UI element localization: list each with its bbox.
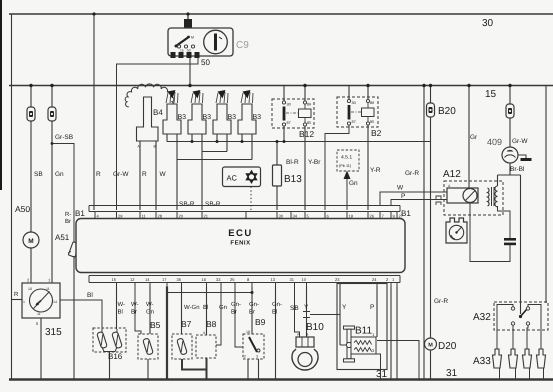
svg-text:R: R [14,291,19,298]
svg-text:Bl: Bl [203,304,208,311]
svg-text:M: M [428,343,433,349]
ground wire ECU pin 17 to bus 31 [166,287,168,380]
svg-text:M: M [28,238,33,245]
svg-text:Y-R: Y-R [370,167,381,174]
relay B2 [337,97,378,127]
wire A51 to bus 31 [73,256,75,380]
wire Y branch to B11 [310,314,340,316]
svg-text:Br: Br [131,309,137,316]
svg-text:15: 15 [112,277,117,282]
ground for 409 [518,155,526,158]
svg-text:30: 30 [352,101,356,105]
svg-text:P: P [370,304,374,311]
throttle potentiometer housing [337,284,387,370]
svg-text:86: 86 [370,101,374,105]
svg-text:A33: A33 [473,356,491,367]
wire injector2+3 group to ECU pin 21 [201,134,203,210]
svg-text:31: 31 [376,369,388,380]
wire left feeder from bus 30 to bus 31 [11,14,13,380]
B16 output join to bus 31 [102,347,117,352]
wire ECU pin 1 to bus 31 [396,287,398,380]
B8 ground to bus 31 [206,358,208,380]
svg-text:315: 315 [45,327,62,338]
svg-text:20: 20 [179,214,184,219]
HT junction wires [498,174,521,176]
wire B4 pin A (R) to ECU pin 11 [139,141,141,210]
wire C9 terminal 15 to bus 15 [189,58,191,86]
svg-text:C9: C9 [236,40,249,51]
fuse on HT suppressor wire [509,86,511,105]
wire B20 to rail and D20 [430,117,432,338]
spark plug A33 cyl3 [523,349,532,380]
snowflake icon [245,170,257,184]
svg-text:W: W [397,185,404,192]
B16 sensor 2 [112,331,123,348]
wire ECU pin 8 (Gn-Br) to B9 pin 18 [251,287,253,335]
svg-text:Gr-R: Gr-R [405,170,419,177]
wire W from ECU pin 9 to A12 [380,192,447,206]
spark plug A33 cyl1 [493,349,502,380]
fuse on Gn wire [51,86,53,108]
B16 sensor 1 [97,331,108,348]
svg-text:87: 87 [352,120,356,124]
distributor cap A32 [494,302,548,330]
wire injector 4 right pin [251,134,253,160]
wire rail to B13 [276,142,278,211]
toothed wheel arc [125,84,174,107]
svg-text:12: 12 [130,277,135,282]
wire B11 pin 1 down to bus 31 [377,341,419,380]
svg-text:Bl-R: Bl-R [286,159,299,166]
svg-text:31: 31 [446,368,458,379]
wire P from ECU pin 27 to A12 [391,200,447,207]
temperature sensor B7 [172,334,192,359]
wire injector1+4 group to ECU pin 20 [176,134,178,210]
svg-text:B7: B7 [181,319,192,329]
suppressor 409 [502,147,518,163]
svg-text:26: 26 [370,214,375,219]
wire fuse to suppressor 409 [509,118,511,147]
scan border left [0,0,2,190]
svg-text:B3: B3 [203,114,212,121]
svg-text:B3: B3 [228,114,237,121]
svg-text:Gr-R: Gr-R [434,298,448,305]
arrow wire Gn to ECU pin 19 [346,177,348,210]
svg-text:B4: B4 [153,108,163,117]
svg-text:SB-R: SB-R [179,201,195,208]
injector supply rail wire [167,141,431,143]
wire B12 switch out to injector rail [283,126,285,142]
wire R battery feed bus30 to ECU pin 4 [93,14,95,210]
svg-text:30: 30 [482,18,494,29]
ECU top pin ticks and numbers [95,212,404,219]
svg-text:24: 24 [372,277,377,282]
svg-text:4.5.1: 4.5.1 [341,155,352,161]
reference box 4.5.1 [337,150,359,171]
svg-text:21: 21 [204,214,209,219]
svg-text:23: 23 [335,277,340,282]
wire bus15 to B12 coil [304,86,306,102]
wire cap to plug 3 [527,325,528,349]
svg-text:Y: Y [342,304,347,311]
svg-text:W-Gn: W-Gn [184,304,200,311]
AC request box [223,167,261,187]
wire A50 to instrument 315 pin 2 [30,248,32,283]
svg-text:25: 25 [230,277,235,282]
fuse on SB wire [30,86,32,108]
svg-text:SB: SB [290,305,299,312]
svg-text:85: 85 [370,120,374,124]
svg-text:Y: Y [304,304,309,311]
svg-text:B3: B3 [178,114,187,121]
svg-text:B9: B9 [255,317,266,327]
wire bus15 to B2 coil [367,86,369,100]
distributor body [446,218,467,243]
B7 sensor element [177,338,188,355]
wire ECU pin 14 (W-Gn) to B5 [149,287,151,335]
svg-text:B11: B11 [355,326,372,337]
svg-text:(Pb 11): (Pb 11) [339,164,352,168]
svg-text:R: R [96,171,101,178]
wire from left feeder to 315 left pin [12,299,23,301]
svg-text:R-: R- [65,211,71,218]
svg-text:2: 2 [244,355,246,359]
injector left pin wires [166,134,168,142]
svg-text:28: 28 [158,214,163,219]
wire ECU pin 33 (Gn) to B8 side [216,287,221,346]
wire ECU pin 10 (Y) to B10 [306,287,308,312]
instrument 315 (rev counter) [22,283,60,318]
svg-text:B12: B12 [299,129,314,139]
svg-text:Gr-W: Gr-W [512,138,528,145]
ECU connector strip B1 top [89,206,400,212]
svg-text:Gr-SB: Gr-SB [55,134,73,141]
switch B9 [243,330,264,359]
svg-text:27: 27 [399,214,404,219]
ignition switch C9 [168,28,233,58]
svg-text:Br: Br [231,309,237,316]
wire capacitor to coil secondary [498,206,511,238]
wire injector 3 right pin [226,134,228,152]
wire Y inside housing to wiper [339,284,341,346]
svg-text:R: R [142,171,147,178]
wire bus15 to B12 switch [283,86,285,102]
wire ECU pin 16 (Bl) to B8 [206,287,208,336]
throttle position sensor B11 [340,326,376,362]
svg-text:Br: Br [249,309,255,316]
wire C9 terminal 50 to ECU pin 29 (Gr-W) [117,58,199,210]
svg-text:Gn: Gn [349,180,358,187]
motor A50 [23,232,39,248]
svg-text:30: 30 [287,103,291,107]
wire ECU pin 2 to bus 31 [390,287,392,380]
fuse B20 [430,86,432,104]
injector B3 cyl3 [213,90,231,134]
svg-text:Br: Br [65,218,71,225]
svg-text:A51: A51 [55,233,70,242]
svg-text:18: 18 [246,330,250,334]
wire cap to plug 1 [497,305,513,350]
svg-text:15: 15 [180,49,184,53]
ignition coil assembly A12 [444,181,503,215]
wire SB from fuse to A50 motor [30,121,32,232]
svg-text:FENIX: FENIX [230,240,250,247]
svg-text:A12: A12 [443,169,461,180]
temperature sensor B5 [138,334,158,359]
svg-text:Gr: Gr [470,134,478,141]
wire cap to plug 2 [512,325,514,349]
svg-text:SB-R: SB-R [205,201,221,208]
crank position sensor B4 [137,97,159,141]
svg-text:15: 15 [485,89,497,100]
wire 409 to HT junction [509,163,511,175]
svg-text:AC: AC [227,174,238,183]
svg-text:Gn: Gn [146,309,154,316]
wire Gr bus15 to A12 module [468,86,470,189]
svg-text:B8: B8 [206,319,217,329]
B16 sensor pin stubs [101,329,103,333]
svg-text:13: 13 [271,277,276,282]
svg-text:B3: B3 [253,114,262,121]
wire branch Gr-SB [52,144,74,244]
svg-text:409: 409 [487,137,502,147]
HT wire to distributor A32 [520,175,522,314]
bus 31 (ground) [9,378,553,381]
svg-text:16: 16 [202,277,207,282]
wire Gr-R bus15 to bus31 [423,86,425,380]
svg-text:SB: SB [34,171,43,178]
wire B4 pin B (W) to ECU pin 28 [155,141,157,210]
wire B11 pin 3 to bus 31 [376,354,381,380]
injector B3 cyl2 [188,90,206,134]
B7 ground to bus 31 [182,359,207,370]
svg-text:W: W [160,171,167,178]
wire ECU pin 15 (W-Bl) to B16 [116,287,118,330]
svg-text:Y-Br: Y-Br [308,159,321,166]
svg-text:W-: W- [146,301,154,308]
svg-text:14: 14 [53,300,57,304]
injector B3 cyl4 [238,90,256,134]
dotted wire AC to ECU [250,187,252,211]
svg-text:Bl: Bl [87,292,93,299]
svg-text:W-: W- [131,301,139,308]
wire ECU pin 12 (W-Br) to B5 [135,287,141,335]
svg-text:B16: B16 [108,352,123,361]
svg-text:Br-Bl: Br-Bl [510,166,525,173]
ECU main unit FENIX [76,219,405,273]
wire bus15 to B2 switch [348,86,350,100]
fuse A51 (diagonal) [68,242,79,258]
svg-text:W-: W- [118,301,126,308]
B9 pins to bus 31 [247,359,249,380]
wire B2 coil to ECU pin 26 (Y-R) [367,125,369,210]
svg-text:B10: B10 [306,322,324,333]
svg-text:1: 1 [23,300,25,304]
svg-text:19: 19 [349,214,354,219]
svg-text:P: P [401,193,405,200]
svg-text:3: 3 [256,355,258,359]
wire cap to plug 4 [528,305,541,350]
injector B3 cyl1 [163,90,181,134]
svg-text:50: 50 [187,49,191,53]
svg-text:31: 31 [290,277,295,282]
spark plug A33 cyl4 [537,349,546,380]
connector on Y wire [303,312,310,318]
svg-text:30: 30 [279,214,284,219]
bus 30 [9,13,553,15]
svg-text:34: 34 [293,214,298,219]
relay B12 [272,99,314,128]
svg-text:Bl: Bl [272,309,277,316]
svg-text:50: 50 [201,58,210,67]
svg-text:Gn-: Gn- [249,301,259,308]
svg-text:33: 33 [216,277,221,282]
wire feed bus30 to C9 [187,14,189,28]
svg-text:10: 10 [302,277,307,282]
svg-text:14: 14 [145,277,150,282]
wire D20 to bus 31 [430,350,432,380]
svg-text:M: M [191,36,194,40]
wire Bl from 315 right pin to B16 [60,300,102,329]
svg-text:11: 11 [46,287,50,291]
resistor B13 [273,165,282,186]
ECU connector strip B1 bottom [89,276,400,283]
ECU bottom pin ticks and numbers [112,277,398,287]
wire right HT feeder from bus 15 down to A32 [545,86,547,304]
knock sensor B10 [292,333,318,370]
wire B2 switch out to ECU pin 6 (Y-Br) [325,125,349,210]
wire ECU pin 25 (Gn-Br) to B9 side [235,287,243,348]
coolant/air temp sensors B16 [93,328,126,352]
svg-text:B1: B1 [75,209,85,218]
wire ECU pin 31 (SB) to knock sensor B10 [295,287,300,338]
svg-text:29: 29 [118,214,123,219]
svg-text:Gn: Gn [55,171,64,178]
svg-text:B13: B13 [284,174,302,185]
wire ECU pin 13 (Gn-Bl) to bus 31 [275,287,277,380]
motor D20 [425,338,437,350]
svg-text:85: 85 [307,121,311,125]
svg-text:Gr-W: Gr-W [113,171,129,178]
svg-text:D20: D20 [438,341,457,352]
wire Gn from fuse to instrument 315 pin 1 [51,121,53,283]
wire P ECU pin 24 to B11 pin 1 [376,287,378,338]
sensor B8 [196,335,216,358]
wire B12 coil to ECU pin 34 (Bl-R) [304,126,306,210]
connector marks at A12 inputs [436,196,441,205]
svg-text:11: 11 [37,312,41,316]
svg-text:10: 10 [28,287,32,291]
svg-text:B2: B2 [371,128,382,138]
capacitor [504,238,516,241]
svg-text:B5: B5 [150,320,161,330]
wire A12 module output to capacitor loop [470,203,510,262]
svg-text:A50: A50 [15,204,30,214]
svg-text:ECU: ECU [228,228,253,239]
svg-text:Gn: Gn [219,304,227,311]
svg-text:Bl: Bl [118,309,123,316]
svg-text:B20: B20 [438,106,456,117]
wire 315 bottom pin to bus 31 [40,318,42,380]
svg-text:17: 17 [162,277,167,282]
B5 to bus 31 [147,359,149,380]
svg-text:A32: A32 [473,312,491,323]
spark plug A33 cyl2 [509,349,518,380]
svg-text:86: 86 [307,103,311,107]
bus 15 [9,85,553,87]
ground spur to B9 pin 18 [167,292,252,294]
B5 sensor element [143,338,154,355]
svg-text:87: 87 [287,121,291,125]
svg-text:Gn-: Gn- [272,301,282,308]
svg-text:35: 35 [177,277,182,282]
wire ECU pin 35 (W-Gn) to B7 [181,287,183,335]
svg-text:Gn-: Gn- [231,301,241,308]
